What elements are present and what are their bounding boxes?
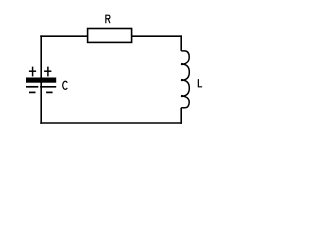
capacitor C1 plus sign right [44, 67, 51, 77]
capacitor C1 minus sign right [46, 91, 53, 93]
capacitor C1 bottom plate [26, 86, 56, 88]
wire right vertical bottom [180, 108, 182, 124]
inductor L1 label [198, 79, 202, 87]
inductor L1 coil [181, 51, 189, 108]
capacitor C1 minus sign left [29, 91, 36, 93]
resistor R1 box [88, 29, 132, 43]
wire top rail left [40, 35, 87, 37]
wire right vertical top [180, 35, 182, 51]
inductor L1 cusp dots [181, 63, 183, 97]
resistor R1 label [106, 15, 110, 23]
capacitor C1 top plate [26, 78, 56, 83]
wire left vertical [40, 35, 42, 123]
capacitor C1 label [63, 81, 68, 89]
wire top rail right [132, 35, 182, 37]
capacitor C1 plus sign left [29, 67, 36, 77]
wire bottom rail [40, 122, 182, 124]
